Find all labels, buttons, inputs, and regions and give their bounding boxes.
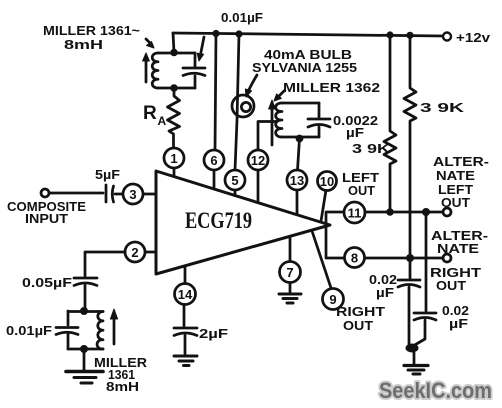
svg-text:11: 11 [348, 206, 362, 221]
wire tank L2 to pin 13 [298, 139, 300, 171]
wire pin 2 to C7 [85, 252, 125, 276]
ground C9 [174, 356, 197, 366]
pin 6 [204, 150, 224, 189]
label 5uF [95, 168, 120, 182]
svg-text:ALTER-: ALTER- [433, 155, 489, 169]
svg-text:OUT: OUT [343, 319, 373, 333]
capacitor C2 0.0022uF in tank L2 [308, 103, 330, 137]
label 0.05uF [22, 276, 72, 290]
node tank L3 bottom junction [80, 345, 88, 353]
svg-text:8: 8 [351, 251, 358, 266]
wire pin 12 up and over to tank L2 [258, 122, 277, 151]
svg-text:8mH: 8mH [106, 380, 139, 394]
svg-text:µF: µF [346, 126, 364, 140]
svg-text:0.01µF: 0.01µF [221, 11, 263, 25]
svg-text:0.02: 0.02 [369, 273, 397, 287]
label 40mA BULB [264, 48, 352, 62]
svg-text:0.05µF: 0.05µF [22, 276, 72, 290]
arrow pointer from SYLVANIA label to bulb [245, 75, 257, 97]
svg-text:LEFT: LEFT [438, 183, 473, 197]
svg-text:SeekIC.com: SeekIC.com [379, 378, 492, 403]
pin 7 [280, 237, 301, 283]
inductor L1 MILLER 1361 tank coil [152, 53, 195, 88]
svg-text:10: 10 [320, 174, 334, 189]
svg-text:A: A [158, 114, 167, 128]
label 0.02 uF left [369, 273, 397, 300]
wire pin 9 to apex [312, 231, 331, 288]
ground pin 7 [279, 283, 301, 304]
wire input terminal to C6 [49, 192, 103, 195]
label ALTERNATE RIGHT OUT [430, 229, 488, 293]
pin 2 [125, 242, 156, 262]
svg-text:5µF: 5µF [95, 168, 120, 182]
wire output bracket from apex [326, 212, 344, 258]
capacitor C9 2uF [174, 328, 197, 354]
terminal +12V [443, 33, 451, 41]
svg-text:NATE: NATE [436, 169, 475, 183]
watermark SeekIC.com [379, 378, 492, 403]
label ECG719 [185, 208, 252, 233]
pin 10 [318, 172, 337, 191]
wire pin 6 to rail [215, 33, 216, 150]
capacitor C7 0.05uF [74, 278, 97, 311]
capacitor C4 0.02uF [398, 258, 420, 345]
label RA [143, 103, 167, 128]
node tank L1 bottom junction [170, 84, 178, 92]
label MILLER 1361~ [43, 24, 140, 38]
ground tank L3 [66, 349, 103, 383]
node junction C5 to pin11 wire [422, 208, 430, 216]
arrow tuning slug L3 up [110, 309, 117, 344]
svg-text:RIGHT: RIGHT [336, 305, 385, 319]
pin 13 [287, 170, 307, 215]
wire +12V supply rail [173, 33, 443, 36]
svg-text:7: 7 [286, 265, 293, 280]
label 0.01uF left [6, 324, 52, 338]
arrow pointer from MILLER 1362 label [274, 91, 284, 101]
svg-text:OUT: OUT [436, 279, 466, 293]
op-amp U1 ECG719 body [156, 171, 330, 274]
node junction resistor R2 to rail [406, 32, 413, 39]
label 0.0022 uF [333, 114, 378, 140]
arrow tuning slug L1 up [143, 53, 150, 82]
node junction R2 C4 to pin8 wire [406, 254, 414, 262]
resistor R2 3.9K right [404, 35, 416, 258]
node tank L1 top junction [170, 49, 178, 57]
svg-text:3: 3 [129, 187, 136, 202]
node tank L3 top junction [80, 307, 88, 315]
svg-text:2: 2 [131, 245, 138, 260]
svg-text:SYLVANIA 1255: SYLVANIA 1255 [252, 61, 357, 75]
svg-text:40mA BULB: 40mA BULB [264, 48, 352, 62]
capacitor C1 0.01uF in tank L1 [183, 53, 205, 88]
label SYLVANIA 1255 [252, 61, 357, 75]
svg-text:OUT: OUT [348, 184, 375, 198]
node junction pin6 wire to rail [212, 30, 219, 37]
svg-text:2µF: 2µF [199, 327, 228, 341]
node junction R1 to pin11 wire [386, 208, 394, 216]
wire tank L1 top to rail [173, 33, 174, 52]
label +12v [456, 31, 490, 45]
svg-text:3 9K: 3 9K [352, 142, 390, 156]
svg-text:MILLER 1362: MILLER 1362 [283, 81, 380, 95]
label 3 9K right resistor [420, 101, 464, 115]
wire rail through bulb to pin 5 [235, 34, 239, 170]
resistor R1 3.9K left [384, 35, 396, 212]
arrow pointer from 0.01uF label to C1 [197, 37, 204, 61]
svg-text:INPUT: INPUT [25, 212, 68, 226]
label RIGHT OUT pin9 [336, 305, 385, 333]
svg-text:0.02: 0.02 [442, 304, 469, 318]
svg-text:8mH: 8mH [64, 38, 103, 52]
pin 12 [248, 150, 268, 203]
svg-text:+12v: +12v [456, 31, 490, 45]
terminal composite input [41, 189, 49, 197]
svg-text:3 9K: 3 9K [420, 101, 464, 115]
pin 8 [345, 248, 365, 268]
label ALTERNATE LEFT OUT [433, 155, 489, 210]
resistor RA [168, 88, 180, 148]
svg-text:RIGHT: RIGHT [430, 266, 481, 280]
svg-text:5: 5 [231, 173, 238, 188]
inductor L3 MILLER 1361 8mH tank coil [68, 312, 103, 350]
wire pin 11 to alternate left out terminal [365, 211, 442, 214]
lamp DS1 40mA bulb [232, 95, 254, 117]
node junction output caps to ground [406, 344, 419, 353]
svg-text:µF: µF [376, 286, 394, 300]
terminal alternate left out [443, 208, 451, 216]
svg-text:NATE: NATE [437, 242, 479, 256]
label 3 9K left resistor [352, 142, 390, 156]
pin 5 [225, 170, 245, 196]
svg-text:1: 1 [170, 151, 177, 166]
capacitor C6 5uF [106, 185, 123, 202]
terminal alternate right out [443, 254, 451, 262]
svg-text:13: 13 [290, 173, 304, 188]
pin 1 [164, 148, 184, 178]
node tank L2 bottom junction [296, 135, 304, 143]
wire pin 14 to C9 [183, 305, 186, 327]
svg-text:14: 14 [178, 287, 193, 302]
arrow pointer from MILLER 1361 label [146, 39, 154, 48]
pin 3 [123, 184, 156, 204]
svg-text:6: 6 [210, 153, 217, 168]
lamp DS1 filament loop [241, 102, 250, 111]
label 8mH [64, 38, 103, 52]
svg-text:0.01µF: 0.01µF [6, 324, 52, 338]
pin 9 [323, 289, 344, 310]
wire pin 8 to alternate right out terminal [365, 257, 442, 260]
label COMPOSITE INPUT [7, 200, 86, 226]
label 0.02 uF right [442, 304, 469, 331]
svg-text:ECG719: ECG719 [185, 208, 252, 233]
node junction resistor R1 to rail [386, 31, 393, 38]
node junction bulb wire to rail [235, 30, 242, 37]
arrow tuning slug L2 up [269, 100, 276, 145]
svg-text:ALTER-: ALTER- [431, 229, 488, 243]
svg-text:12: 12 [251, 153, 265, 168]
pin 14 [175, 266, 196, 305]
svg-text:LEFT: LEFT [342, 171, 379, 185]
capacitor C8 0.01uF in tank L3 [56, 311, 78, 349]
ground output caps [404, 351, 428, 374]
svg-text:OUT: OUT [441, 196, 470, 210]
svg-text:µF: µF [449, 317, 468, 331]
svg-text:R: R [143, 103, 157, 124]
wire pin 10 to apex [321, 190, 326, 221]
svg-text:MILLER 1361~: MILLER 1361~ [43, 24, 140, 38]
capacitor C5 0.02uF [413, 212, 436, 346]
label 2uF [199, 327, 228, 341]
inductor L2 MILLER 1362 tank coil [276, 103, 319, 137]
pin 11 [344, 202, 365, 223]
label LEFT OUT [342, 171, 379, 198]
label 0.01uF top [221, 11, 263, 25]
label MILLER 1361 8mH [94, 356, 147, 394]
label MILLER 1362 [283, 81, 380, 95]
